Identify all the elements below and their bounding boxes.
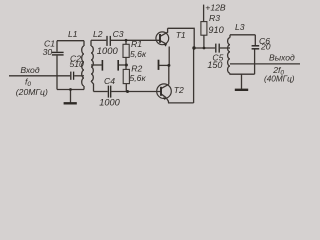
svg-text:L3: L3	[235, 22, 245, 32]
svg-text:R1: R1	[131, 39, 142, 49]
svg-text:Т1: Т1	[176, 30, 186, 40]
svg-text:20: 20	[260, 42, 271, 52]
svg-text:R2: R2	[131, 63, 142, 73]
svg-text:R3: R3	[209, 13, 220, 23]
svg-text:С3: С3	[113, 29, 124, 39]
svg-text:910: 910	[208, 25, 224, 35]
svg-text:5,6к: 5,6к	[130, 73, 147, 83]
svg-text:150: 150	[207, 60, 222, 70]
svg-text:С4: С4	[104, 76, 115, 86]
svg-text:Вход: Вход	[20, 65, 39, 75]
svg-text:510: 510	[70, 59, 85, 69]
svg-text:+12В: +12В	[205, 2, 226, 12]
svg-text:(40МГц): (40МГц)	[264, 74, 295, 83]
svg-text:5,6к: 5,6к	[130, 49, 147, 59]
svg-text:1000: 1000	[99, 97, 120, 107]
svg-text:(20МГц): (20МГц)	[16, 87, 48, 97]
svg-text:Т2: Т2	[174, 85, 184, 95]
svg-text:30: 30	[43, 47, 53, 57]
svg-text:L2: L2	[93, 29, 103, 39]
svg-text:Выход: Выход	[269, 52, 295, 62]
svg-text:L1: L1	[68, 29, 78, 39]
svg-text:1000: 1000	[97, 45, 119, 56]
